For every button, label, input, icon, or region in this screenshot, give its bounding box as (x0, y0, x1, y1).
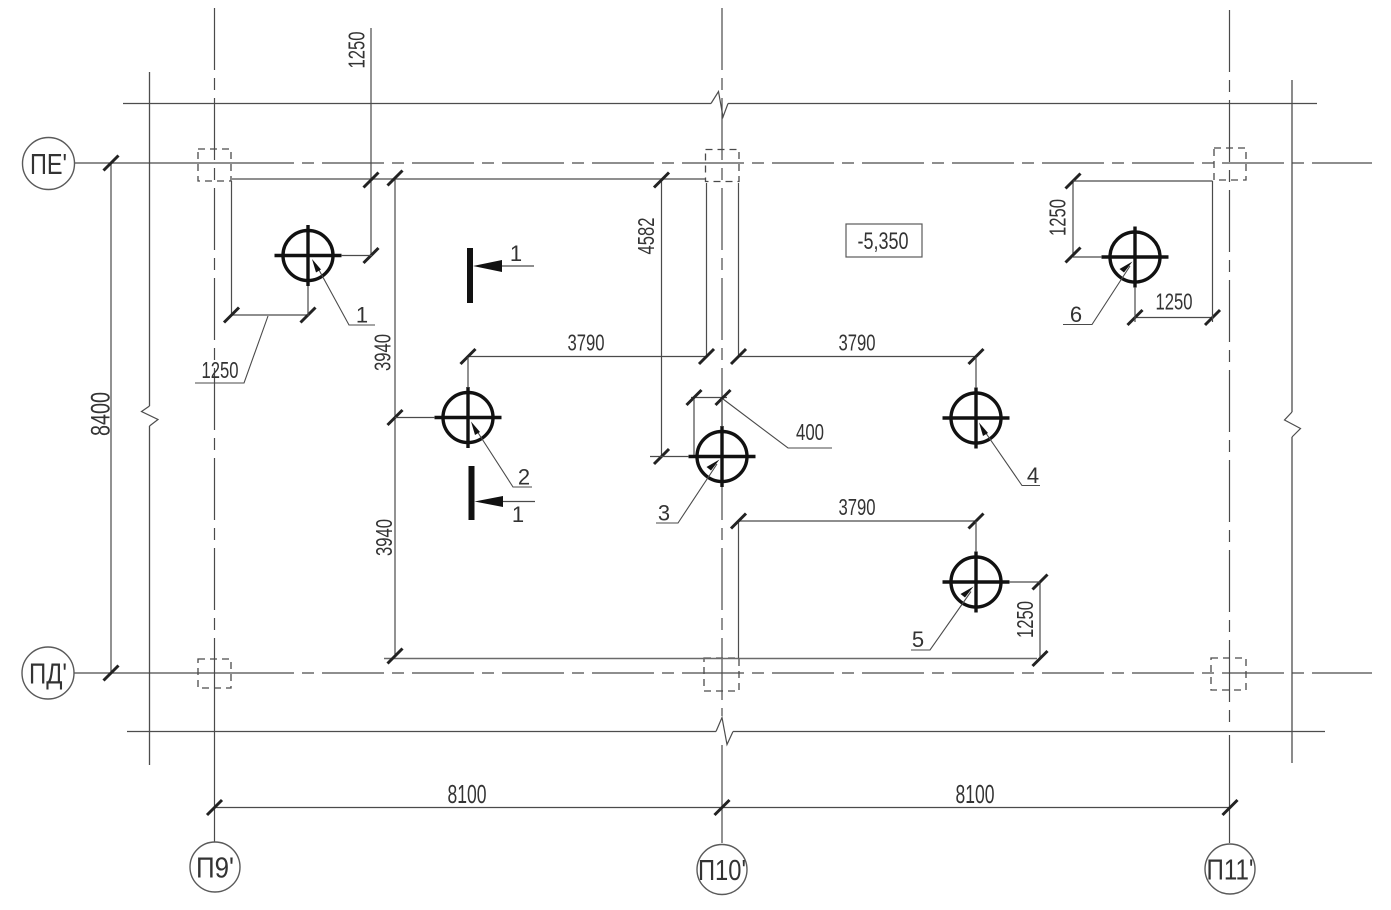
wall top edge (123, 103, 1317, 105)
break symbol top (711, 92, 728, 118)
axis P11' vertical (1229, 10, 1231, 722)
svg-text:1250: 1250 (202, 357, 239, 383)
leader pier 1 (312, 259, 375, 328)
section mark top bar (467, 248, 473, 303)
dim 1250 pier6 vertical line (1072, 181, 1074, 255)
dim 3940 tick bottom (388, 649, 403, 664)
dim 3790 lower line (739, 520, 977, 522)
column PD'/P9' (198, 659, 231, 688)
svg-text:6: 6 (1070, 302, 1082, 327)
grillage seam line left (706, 183, 708, 357)
svg-text:П11': П11' (1207, 855, 1254, 887)
dim 8100 tick P9' (207, 800, 222, 815)
dim 3790 ul tick left (461, 349, 476, 364)
dim 1250 pier1 v tick bottom (364, 248, 379, 263)
grillage seam line right upper (738, 183, 740, 357)
pier 3 ext up (721, 399, 723, 427)
pier 2 ext up (467, 357, 469, 388)
dim 3940 tick middle (388, 410, 403, 425)
svg-text:3940: 3940 (371, 519, 397, 556)
dim 3790 upper-right line (739, 356, 977, 358)
pier 5 (943, 552, 1010, 613)
dim 3790 low tick right (969, 514, 984, 529)
dim 400 line (691, 397, 727, 399)
dim 1250 pier6 horizontal line (1135, 317, 1213, 319)
axis PD' horizontal (74, 672, 232, 674)
dim 1250 pier6 v ext top (1073, 180, 1213, 182)
dim 8100 tick P11' (1223, 800, 1238, 815)
pier 2 (435, 387, 502, 448)
dim 1250 pier1 h tick right (301, 308, 316, 323)
section mark bottom bar (469, 466, 475, 520)
dim 3790 low tick left (731, 514, 746, 529)
pier 4 ext up (975, 357, 977, 388)
dim 8100 left line (215, 807, 723, 809)
dim 3940 tick top (388, 171, 403, 186)
svg-text:П9': П9' (196, 853, 234, 885)
wall left edge (149, 72, 151, 765)
svg-text:2: 2 (518, 465, 530, 490)
svg-text:1: 1 (512, 502, 524, 527)
break symbol bottom (716, 718, 733, 745)
svg-text:1250: 1250 (344, 32, 370, 69)
pier 5 ext up (975, 521, 977, 552)
dim 400 extension left (693, 399, 695, 456)
dim 400 leader (723, 399, 832, 448)
dim 1250 pier1 h leader (195, 316, 268, 383)
svg-text:400: 400 (796, 419, 824, 445)
svg-text:3790: 3790 (839, 494, 876, 520)
pier 3 ext left (650, 456, 689, 458)
bubble P9' (190, 842, 240, 892)
section mark bottom line (503, 501, 535, 503)
dim 1250 pier5 tick bottom (1033, 651, 1048, 666)
pier 3 (689, 426, 756, 487)
axis PE' horizontal (75, 162, 232, 164)
column PE'/P10' (706, 150, 740, 182)
svg-text:1: 1 (356, 303, 368, 328)
dim 3790 ur tick right (969, 349, 984, 364)
grillage seam line right lower (738, 521, 740, 658)
dim 1250 pier6 h tick left (1128, 310, 1143, 325)
column PE'/P11' (1214, 148, 1246, 180)
svg-text:8100: 8100 (956, 779, 995, 809)
axis P9' vertical (214, 8, 216, 700)
break symbol left (142, 406, 159, 426)
column PE'/P9' (198, 149, 231, 181)
pier 1 ext right (341, 255, 372, 257)
dim 1250 pier1 v tick top (364, 173, 379, 188)
dim 1250 pier6 v tick bottom (1066, 248, 1081, 263)
dim 8100 tick P10' (715, 800, 730, 815)
dim 4582 tick top (654, 173, 669, 188)
section mark bottom arrow (475, 496, 504, 507)
svg-text:8400: 8400 (86, 392, 116, 436)
section mark top line (502, 265, 534, 267)
leader pier 6 (1063, 262, 1133, 328)
svg-text:3940: 3940 (370, 334, 396, 371)
svg-text:3: 3 (658, 501, 670, 526)
pier 5 ext right (1009, 581, 1040, 583)
pier 4 (943, 388, 1010, 449)
svg-text:1: 1 (510, 241, 522, 266)
axis P10' vertical (721, 8, 723, 716)
grillage bottom edge (384, 658, 1037, 660)
leader pier 5 (911, 587, 974, 653)
bubble P10' (697, 845, 747, 895)
svg-text:4: 4 (1027, 463, 1039, 488)
dim 8400 tick top (104, 156, 119, 171)
dim 3940 line (394, 178, 396, 656)
dim 1250 pier1 h tick left (224, 308, 239, 323)
svg-text:1250: 1250 (1156, 289, 1193, 315)
leader pier 4 (979, 423, 1040, 489)
dim 8100 right line (722, 807, 1230, 809)
bubble PE' (23, 138, 75, 190)
dim 3790 ur tick left (731, 349, 746, 364)
section mark top arrow (473, 260, 502, 272)
dim 1250 pier6 h ext right (1212, 181, 1214, 322)
dim 1250 pier1 vertical line (370, 28, 372, 256)
bubble PD' (22, 647, 74, 699)
svg-text:-5,350: -5,350 (858, 228, 909, 255)
dim 4582 tick bottom (654, 449, 669, 464)
column PD'/P10' (704, 658, 739, 691)
dim 1250 pier5 vertical line (1039, 582, 1041, 659)
dim 4582 line (661, 180, 663, 457)
pier 6 ext left (1073, 256, 1102, 258)
column PD'/P11' (1211, 658, 1246, 690)
grillage top edge (232, 178, 705, 180)
bubble P11' (1205, 844, 1255, 894)
dim 3790 upper-left line (468, 356, 707, 358)
dim 1250 pier1 horizontal line (232, 314, 309, 316)
svg-text:ПЕ': ПЕ' (30, 149, 67, 181)
break symbol right (1285, 412, 1301, 437)
pier 2 ext left (395, 417, 435, 419)
leader pier 3 (656, 460, 720, 526)
dim 8400 tick bottom (104, 666, 119, 681)
dim 1250 pier6 h tick right (1205, 310, 1220, 325)
wall right edge (1291, 80, 1293, 763)
svg-text:4582: 4582 (633, 218, 659, 255)
svg-text:1250: 1250 (1045, 199, 1071, 236)
pier 1 ext down (307, 286, 309, 316)
dim 8400 line (110, 163, 112, 673)
elevation -5,350 box (846, 224, 922, 257)
svg-text:1250: 1250 (1012, 601, 1038, 638)
dim 3790 ul tick right (699, 349, 714, 364)
pier 1 (275, 225, 342, 286)
dim 1250 pier6 v tick top (1066, 174, 1081, 189)
pier 6 ext down (1134, 287, 1136, 322)
extension line left stub (231, 181, 233, 316)
svg-text:3790: 3790 (568, 330, 605, 356)
svg-text:3790: 3790 (839, 330, 876, 356)
dim 1250 pier5 tick top (1033, 575, 1048, 590)
svg-text:ПД': ПД' (29, 659, 67, 691)
svg-text:П10': П10' (698, 855, 746, 887)
svg-text:5: 5 (912, 627, 924, 652)
leader pier 2 (471, 422, 532, 490)
svg-text:8100: 8100 (448, 779, 487, 809)
dim 400 tick right (716, 390, 731, 405)
pier 6 (1102, 227, 1169, 288)
dim 400 tick left (687, 390, 702, 405)
wall bottom edge (127, 731, 1325, 733)
